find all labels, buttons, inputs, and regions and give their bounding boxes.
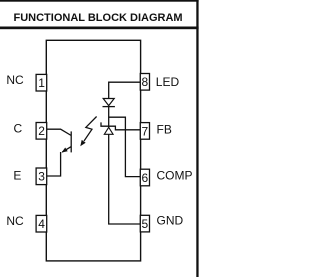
LED cathode bar: [103, 106, 115, 108]
pin box 1: [36, 74, 47, 91]
svg-text:GND: GND: [157, 213, 184, 227]
svg-text:NC: NC: [6, 214, 24, 228]
pin box 6: [140, 169, 149, 186]
svg-text:1: 1: [38, 76, 45, 90]
svg-text:FUNCTIONAL BLOCK DIAGRAM: FUNCTIONAL BLOCK DIAGRAM: [14, 12, 183, 24]
pin box 7: [140, 123, 149, 140]
svg-text:6: 6: [142, 171, 149, 185]
light emission arrow: [84, 117, 97, 142]
wire LED cathode down to amp cathode node: [108, 107, 110, 128]
svg-text:4: 4: [38, 217, 45, 231]
svg-text:C: C: [13, 121, 22, 135]
emitter arrowhead: [62, 148, 68, 153]
wire pin8 to LED anode: [109, 82, 141, 98]
svg-text:FB: FB: [157, 122, 172, 136]
svg-text:7: 7: [142, 124, 149, 138]
pin box 5: [140, 215, 149, 232]
pin box 8: [140, 74, 149, 91]
svg-text:3: 3: [38, 170, 45, 184]
light arrowhead: [80, 140, 85, 146]
svg-text:8: 8: [142, 75, 149, 89]
IC body box: [46, 40, 140, 261]
pin box 2: [36, 123, 47, 140]
svg-text:E: E: [13, 169, 21, 183]
wire pin2 to phototransistor collector: [47, 129, 71, 135]
title bar top rule: [0, 0, 199, 2]
svg-text:5: 5: [142, 217, 149, 231]
svg-text:COMP: COMP: [157, 169, 193, 183]
wire amp anode down to GND pin5: [109, 134, 141, 224]
phototransistor emitter: [62, 147, 71, 153]
page right border: [196, 0, 198, 277]
shunt reference amplifier triangle: [104, 127, 113, 134]
wire FB pin7 to ref input: [101, 122, 140, 129]
phototransistor base bar: [70, 131, 72, 152]
wire emitter to pin3: [47, 152, 61, 176]
title bar thick bottom rule: [0, 27, 199, 30]
svg-text:2: 2: [38, 124, 45, 138]
LED D1: [103, 99, 114, 106]
svg-text:NC: NC: [6, 73, 24, 87]
pin box 4: [36, 215, 47, 232]
wire cathode node to COMP pin6: [109, 117, 141, 176]
pin box 3: [36, 168, 47, 185]
svg-text:LED: LED: [156, 75, 180, 89]
